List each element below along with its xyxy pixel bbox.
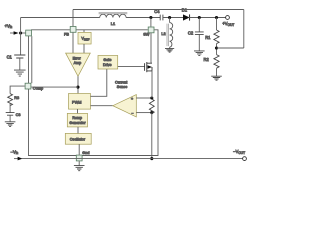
svg-text:VREF: VREF bbox=[81, 37, 89, 42]
node: sense bottom dot bbox=[150, 111, 153, 114]
node: source rail junction dot bbox=[150, 157, 153, 160]
node: +Vin input arrow bbox=[14, 31, 19, 35]
wire: internal Vin rail (parallel to left edge) bbox=[31, 36, 33, 83]
resistor Rsense bbox=[149, 99, 154, 114]
wire: C2 top lead bbox=[198, 18, 200, 32]
svg-text:Gnd: Gnd bbox=[82, 150, 89, 155]
svg-text:Oscillator: Oscillator bbox=[70, 137, 86, 141]
svg-text:R3: R3 bbox=[14, 95, 19, 100]
wire: C4 to D1 anode bbox=[163, 17, 183, 19]
wire: C3 to ground bbox=[9, 115, 11, 121]
wire: bottom negative rail bbox=[22, 158, 243, 160]
block: Vref box bbox=[78, 30, 91, 44]
wire: comp node to Comp pad bbox=[31, 86, 78, 88]
inductor L1 bbox=[99, 12, 128, 25]
resistor R3 bbox=[8, 94, 19, 106]
node: -Vout terminal circle bbox=[243, 157, 247, 161]
svg-text:FB: FB bbox=[64, 32, 69, 37]
pin pad: SW bbox=[148, 27, 154, 33]
pin pad: Vin bbox=[26, 30, 32, 36]
capacitor C3 bbox=[6, 112, 21, 117]
block: Gate Drive box bbox=[98, 56, 118, 70]
ground: under C1 bbox=[14, 70, 26, 76]
node: +Vout terminal circle bbox=[226, 16, 230, 20]
node: +Vin junction dot bbox=[19, 31, 22, 34]
node: sense top dot bbox=[150, 96, 153, 99]
pin pad: FB bbox=[70, 27, 76, 33]
wire: MOSFET source to sense resistor bbox=[151, 71, 153, 98]
ground: under Gnd pad bbox=[74, 166, 85, 171]
svg-text:Generator: Generator bbox=[69, 121, 86, 125]
pin pad: Comp bbox=[25, 83, 31, 89]
wire: Gnd pad to ground bbox=[78, 161, 80, 165]
inductor L2 bbox=[161, 23, 172, 48]
wire: FB pad to error amp input bbox=[72, 33, 74, 54]
svg-text:−VOUT: −VOUT bbox=[233, 149, 245, 155]
block: PWM box bbox=[69, 94, 91, 110]
resistor R2 bbox=[204, 55, 220, 69]
svg-text:Drive: Drive bbox=[103, 63, 112, 67]
wire: sense resistor to bottom rail bbox=[151, 113, 153, 159]
wire: R2 to ground bbox=[216, 68, 218, 76]
svg-text:PWM: PWM bbox=[72, 100, 82, 105]
wire: feedback drop to FB pad bbox=[72, 10, 74, 27]
wire: +Vin to IC Vin pin bbox=[19, 32, 26, 34]
node: R1 junction dot bbox=[215, 16, 218, 19]
wire: feedback right edge riser bbox=[243, 10, 245, 49]
svg-text:−Vin: −Vin bbox=[11, 149, 19, 155]
ground: under R2 bbox=[211, 76, 222, 80]
wire: +Vin up to L1 rail bbox=[20, 18, 22, 34]
capacitor C4 bbox=[154, 9, 163, 20]
svg-text:Comp: Comp bbox=[33, 85, 43, 90]
wire: +Vin input lead bbox=[10, 32, 15, 34]
wire: L1 to SW node bbox=[126, 17, 160, 19]
svg-text:Error: Error bbox=[73, 56, 82, 60]
svg-text:Current: Current bbox=[115, 80, 127, 84]
svg-text:+: + bbox=[131, 97, 133, 101]
svg-text:SW: SW bbox=[143, 31, 150, 36]
wire: R1 to R2 junction bbox=[216, 44, 218, 55]
node: C2 junction dot bbox=[198, 16, 201, 19]
svg-text:D1: D1 bbox=[182, 8, 188, 13]
wire: feedback from divider to right edge bbox=[217, 47, 244, 49]
svg-text:+VOUT: +VOUT bbox=[222, 21, 234, 27]
node: feedback divider junction dot bbox=[215, 46, 218, 49]
block: Ramp Generator box bbox=[67, 113, 87, 127]
wire: feedback top run to FB pin bbox=[73, 9, 244, 11]
wire: oscillator to Gnd pad bbox=[78, 144, 80, 155]
wire: R3 to C3 bbox=[9, 104, 11, 113]
op-amp: Current Sense bbox=[113, 80, 137, 117]
wire: C1 top lead from Vin node bbox=[20, 33, 22, 55]
pin pad: Gnd bbox=[76, 155, 82, 161]
capacitor C2 bbox=[188, 31, 204, 36]
svg-text:Sense: Sense bbox=[117, 85, 127, 89]
transistor Q1 (MOSFET) bbox=[118, 62, 152, 72]
svg-text:Amp: Amp bbox=[74, 61, 82, 65]
block: Oscillator box bbox=[65, 133, 91, 144]
IC boundary outline bbox=[29, 30, 159, 156]
svg-text:L2: L2 bbox=[161, 31, 165, 36]
svg-text:R2: R2 bbox=[204, 57, 210, 62]
svg-text:Ramp: Ramp bbox=[72, 116, 82, 120]
diode D1 bbox=[182, 8, 190, 21]
wire: junction down to L2 bbox=[169, 18, 171, 23]
node: -Vin input arrow bbox=[18, 157, 23, 161]
wire: ramp generator to oscillator bbox=[77, 127, 79, 133]
wire: sense - input stub bbox=[136, 112, 152, 114]
wire: C2 bottom lead bbox=[198, 34, 200, 50]
wire: C1 bottom lead bbox=[19, 58, 21, 70]
wire: R1 top lead bbox=[216, 18, 218, 31]
node: C4/L2/D1 junction dot bbox=[168, 16, 171, 19]
wire: sense + input stub bbox=[136, 97, 152, 99]
svg-text:C2: C2 bbox=[188, 31, 194, 36]
wire: -Vin input lead bbox=[14, 158, 19, 160]
ground: under C2 bbox=[194, 51, 205, 56]
svg-text:−: − bbox=[131, 111, 133, 115]
ground: under L2 bbox=[165, 49, 174, 53]
svg-text:Gate: Gate bbox=[103, 58, 111, 62]
wire: PWM to ramp generator bbox=[77, 109, 79, 113]
svg-text:+Vin: +Vin bbox=[5, 23, 13, 29]
wire: current sense output to PWM bbox=[91, 105, 113, 107]
wire: SW node down to SW pad bbox=[150, 18, 152, 27]
ground: under C3 bbox=[5, 122, 16, 127]
svg-text:C3: C3 bbox=[16, 112, 21, 117]
node: SW junction dot bbox=[149, 16, 152, 19]
resistor R1 bbox=[205, 30, 219, 44]
wire: Vref to error amp input bbox=[83, 44, 85, 53]
wire: D1 cathode to +Vout terminal bbox=[189, 17, 225, 19]
wire: top power rail Vin to L1 bbox=[21, 17, 100, 19]
svg-text:R1: R1 bbox=[205, 35, 211, 40]
wire: L2 to ground bbox=[169, 47, 171, 48]
wire: Comp pad to compensation network bbox=[10, 86, 25, 94]
svg-text:C1: C1 bbox=[7, 54, 13, 59]
node: comp junction dot bbox=[76, 86, 79, 89]
wire: error amp output to comp node bbox=[77, 76, 79, 93]
op-amp: Error Amp bbox=[66, 53, 91, 76]
wire: PWM to gate drive bbox=[91, 69, 107, 96]
capacitor C1 bbox=[7, 54, 26, 59]
svg-text:L1: L1 bbox=[111, 21, 115, 26]
wire: SW pad to MOSFET drain bbox=[151, 33, 152, 63]
